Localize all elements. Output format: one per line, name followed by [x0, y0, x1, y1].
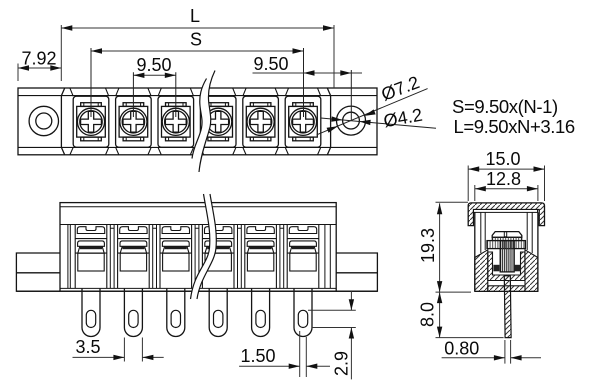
floor band hatched	[488, 286, 525, 292]
body side walls	[475, 212, 538, 291]
svg-text:S=9.50x(N-1): S=9.50x(N-1)	[452, 96, 558, 117]
svg-text:1.50: 1.50	[240, 346, 275, 366]
screw shaft	[500, 241, 514, 272]
svg-text:3.5: 3.5	[75, 337, 100, 357]
pin 4	[209, 289, 227, 337]
pin (hatched)	[504, 276, 511, 338]
top band line	[18, 95, 377, 97]
knurl collar band	[487, 241, 525, 249]
pin 3	[167, 289, 185, 337]
body bottom	[475, 290, 538, 292]
pin 6	[294, 289, 312, 337]
body outline	[60, 203, 336, 292]
svg-text:19.3: 19.3	[418, 228, 438, 263]
dim L ext lines	[61, 25, 334, 88]
dim 2.9 ext lines	[308, 310, 356, 327]
screw head top face	[492, 232, 522, 238]
body inner wall lines	[481, 212, 532, 253]
clamp jaw dark left	[493, 265, 499, 272]
cell 3	[158, 96, 194, 147]
cell 1	[73, 96, 109, 147]
right mounting hole outer	[337, 106, 366, 135]
screw head slot	[504, 232, 506, 237]
right end wall	[325, 225, 330, 289]
svg-text:0.80: 0.80	[444, 339, 479, 359]
left mounting hole	[29, 106, 58, 135]
dim 0.80 line right	[511, 357, 541, 359]
left ear	[16, 253, 60, 291]
front cell 5	[245, 225, 277, 289]
svg-text:8.0: 8.0	[418, 302, 438, 327]
dim 1.50 ext lines under pin6 hole	[300, 331, 307, 377]
svg-text:9.50: 9.50	[136, 55, 171, 75]
dim 7.92 left ext	[17, 64, 19, 82]
pin 2	[124, 289, 142, 337]
left lower block hatched	[475, 250, 488, 292]
rail bottom line	[60, 224, 336, 226]
FRONTVIEW	[16, 194, 377, 337]
left end wall	[68, 225, 70, 289]
svg-text:12.8: 12.8	[486, 169, 521, 189]
cap (hatched top-hat)	[468, 203, 544, 226]
dim 8.0 bottom ext line	[436, 337, 504, 339]
dim 19.3 vertical line	[439, 203, 441, 292]
inter-cell walls	[110, 225, 283, 289]
dim S line	[91, 50, 304, 52]
dim 8.0 vertical line	[439, 292, 441, 338]
dim 9.50 second line	[253, 72, 363, 74]
front cell 1	[75, 225, 107, 289]
bottom line full	[16, 290, 377, 292]
dim 0.80 line left	[442, 357, 505, 359]
dim 9.50 second ext to hole center	[350, 70, 352, 121]
svg-text:S: S	[190, 30, 202, 50]
cell 6	[285, 96, 321, 147]
cell 2	[116, 96, 152, 147]
dim 19.3 ext lines	[436, 202, 472, 292]
dim 9.50 first ext lines	[133, 72, 175, 117]
dim S ext lines into screws	[91, 48, 304, 117]
front cell 6	[287, 225, 319, 289]
dim 9.50 first line	[133, 74, 175, 76]
SIDEDIMS	[418, 149, 545, 364]
break river front (white)	[191, 194, 217, 299]
svg-text:L: L	[190, 6, 200, 26]
dim 12.8 ext lines	[475, 185, 538, 201]
left block face right edge + flares	[61, 88, 64, 154]
leader diam 4.2	[321, 118, 436, 128]
front cell 3	[160, 225, 192, 289]
cell 4	[200, 96, 236, 147]
dim 7.92 line	[18, 67, 61, 69]
dim 15.0 line	[468, 168, 544, 170]
clamp jaw dark right	[515, 265, 521, 272]
cap inner lip bar	[474, 210, 538, 213]
svg-text:7.92: 7.92	[21, 49, 56, 69]
dim 0.80 ext lines	[505, 340, 511, 364]
svg-text:9.50: 9.50	[253, 54, 288, 74]
SIDEVIEW	[468, 203, 544, 338]
cells bottom line	[60, 287, 336, 289]
right mounting hole inner	[343, 112, 360, 129]
front cell 2	[118, 225, 150, 289]
TOPVIEW	[18, 71, 377, 173]
dim 1.50 line left	[239, 365, 300, 367]
leader diam 7.2	[317, 89, 428, 135]
svg-text:L=9.50xN+3.16: L=9.50xN+3.16	[454, 116, 575, 137]
break curve front right	[197, 194, 216, 299]
right block face left edge + flares	[327, 88, 330, 154]
screw head striated sides	[492, 237, 522, 240]
cell 5	[243, 96, 279, 147]
dim 15.0 ext lines	[468, 166, 544, 202]
break curve left	[192, 79, 207, 159]
dim 12.8 line	[475, 188, 538, 190]
dim 2.9 vertical line	[350, 291, 352, 379]
FORMULAS	[452, 96, 575, 137]
dim L line	[61, 27, 334, 29]
break curve right	[199, 71, 215, 173]
dim 3.5 line left	[73, 356, 125, 358]
break curve front left	[191, 194, 210, 299]
dim 3.5 ext lines at pin2	[124, 338, 142, 362]
bottom band line	[18, 146, 377, 148]
separator flares between cells	[70, 88, 321, 154]
break river (white)	[192, 71, 215, 173]
dim 1.50 line right	[306, 365, 330, 367]
front cell 4	[202, 225, 234, 289]
right lower block hatched	[525, 250, 538, 292]
pin 1	[82, 289, 100, 337]
dim 3.5 line right	[142, 356, 163, 358]
rail band line	[60, 206, 336, 208]
pin 5	[252, 289, 270, 337]
clamp U channel hatched	[488, 252, 525, 281]
svg-text:15.0: 15.0	[485, 149, 520, 169]
right ear	[336, 253, 377, 291]
svg-text:2.9: 2.9	[332, 351, 352, 376]
strip outline	[18, 88, 377, 155]
TOPDIMS	[18, 6, 436, 135]
FRONTDIMS	[73, 291, 356, 379]
